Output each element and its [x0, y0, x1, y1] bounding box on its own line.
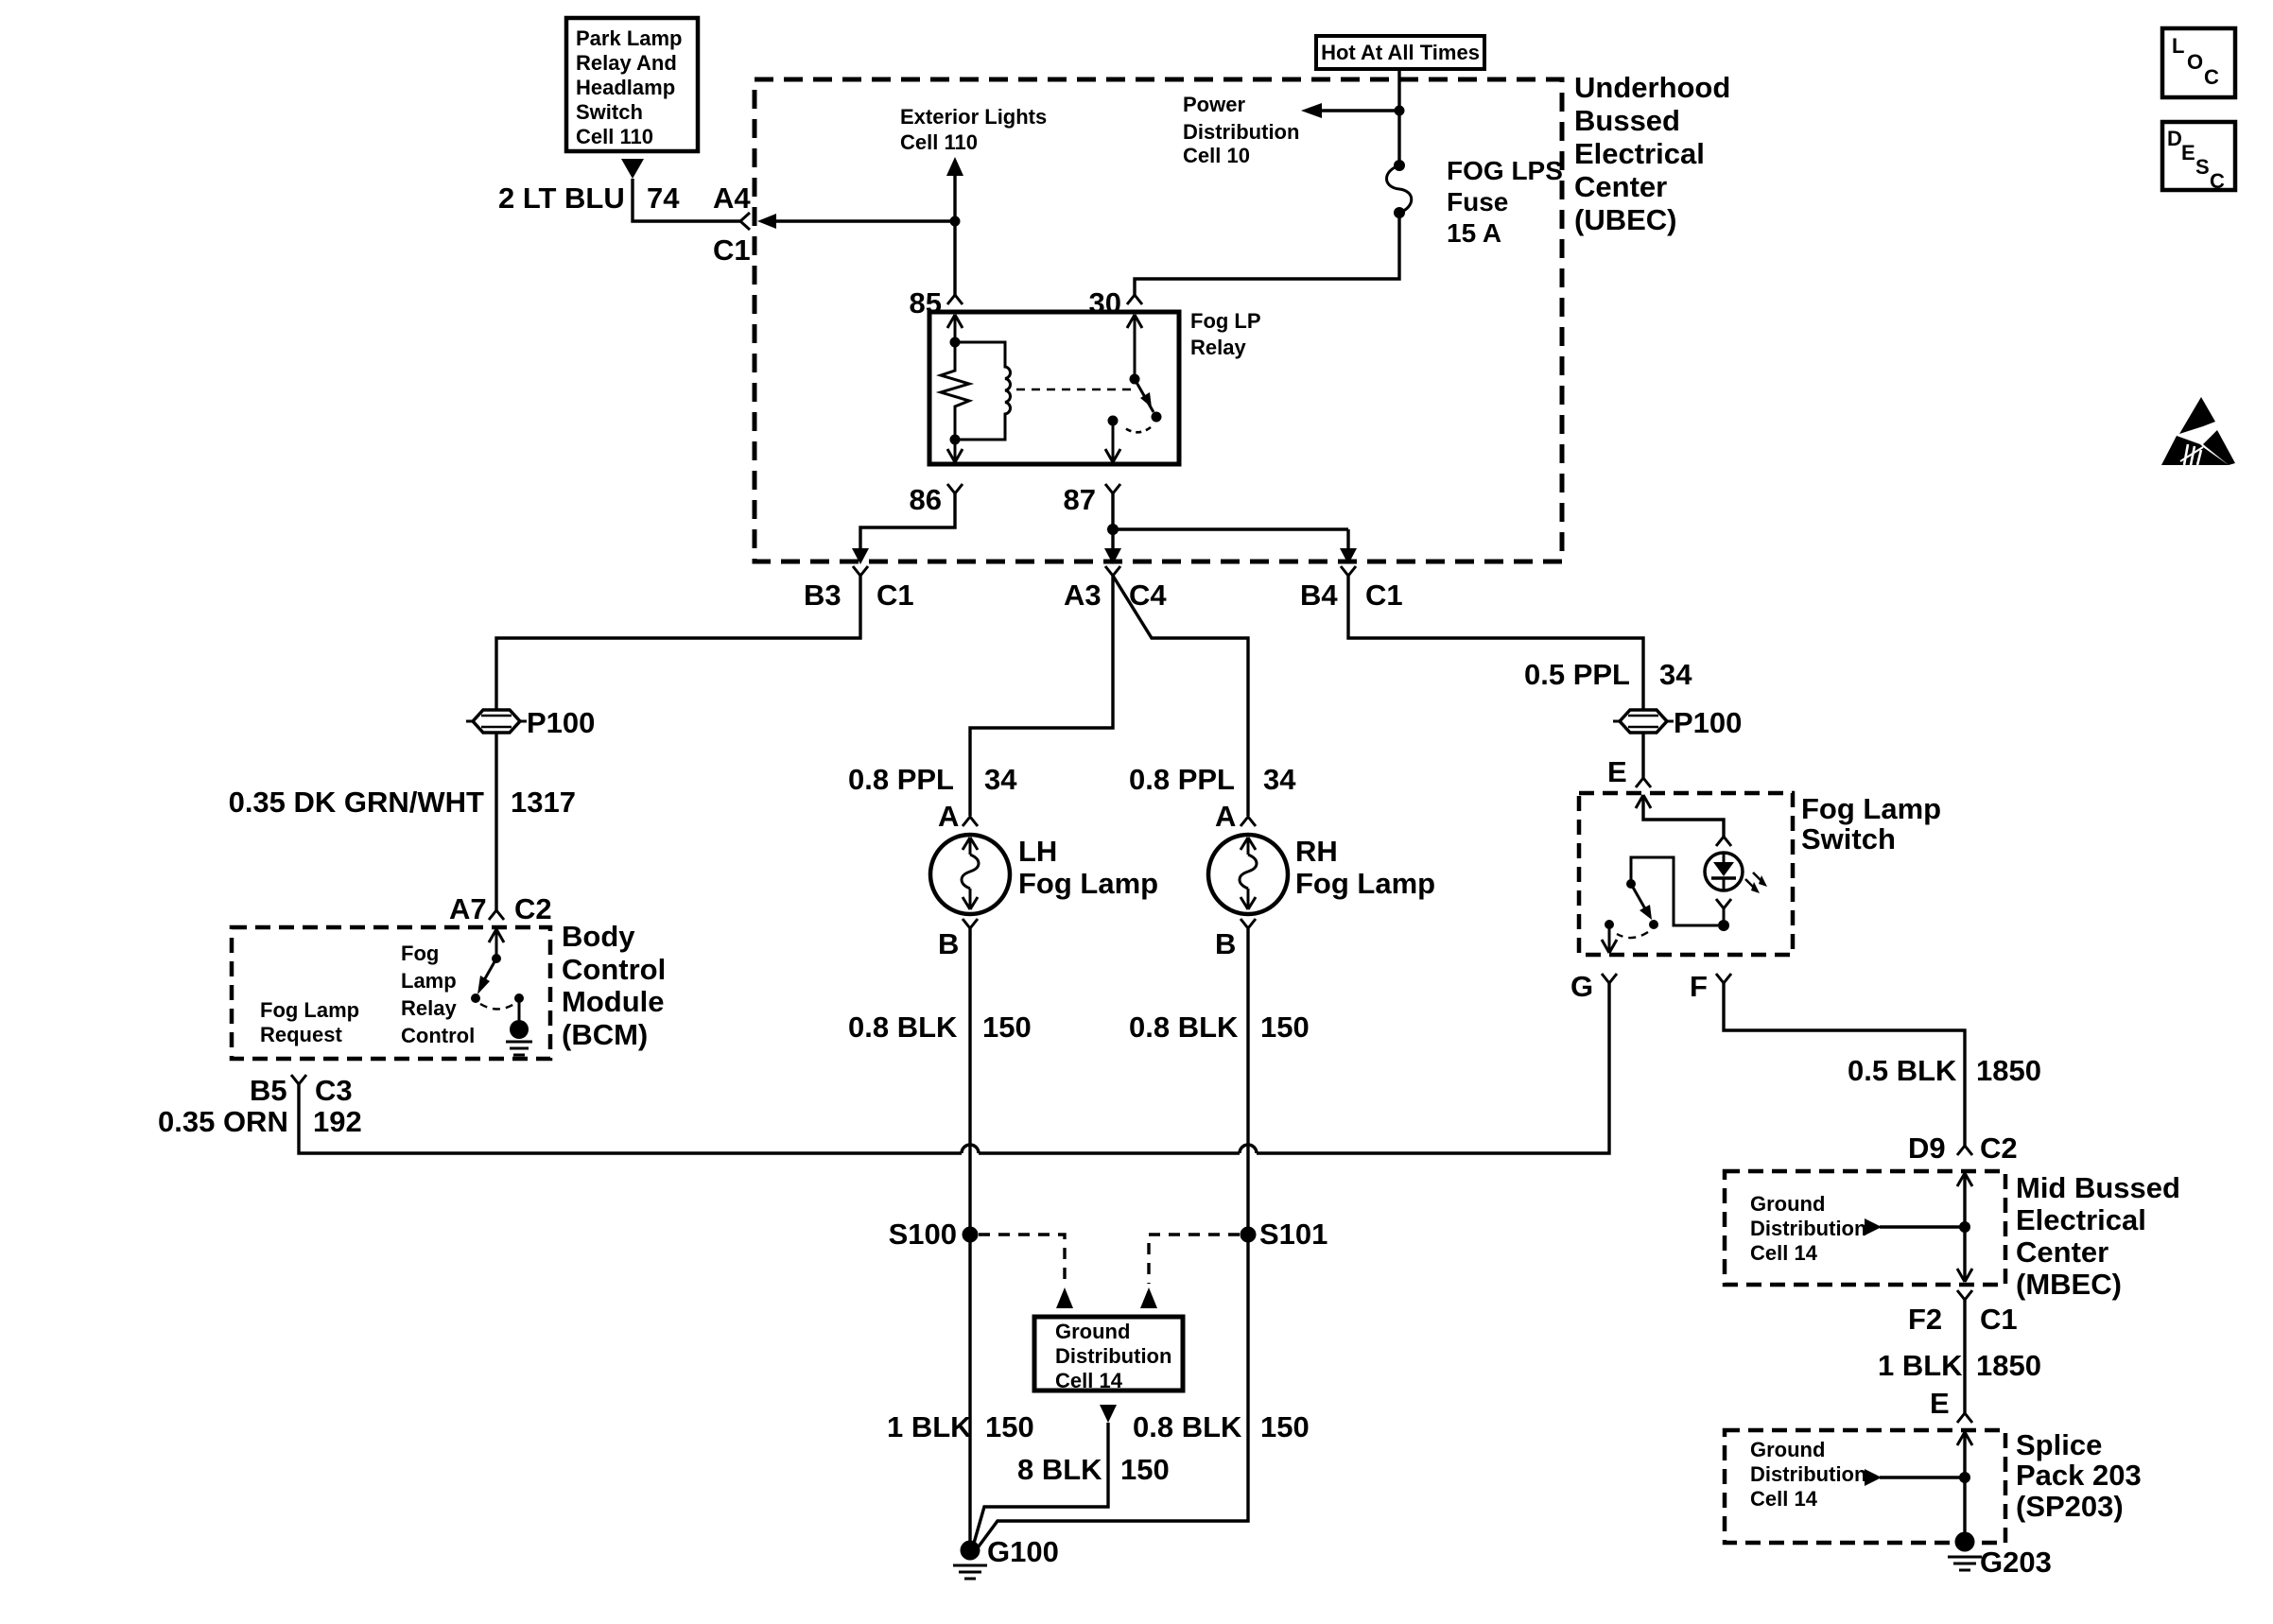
wire A3 to LH fog lamp — [970, 576, 1113, 816]
connector A of LH lamp — [938, 800, 978, 833]
MBEC internal wire with arrows — [1957, 1173, 1972, 1282]
svg-text:1850: 1850 — [1976, 1054, 2041, 1087]
svg-text:(SP203): (SP203) — [2016, 1490, 2124, 1523]
svg-text:0.5 BLK: 0.5 BLK — [1848, 1054, 1957, 1087]
svg-text:A3: A3 — [1064, 579, 1102, 612]
wire C4 to RH fog lamp — [1113, 576, 1248, 816]
wire to B4 — [1340, 529, 1357, 564]
svg-text:LH: LH — [1018, 835, 1057, 868]
connector B of LH lamp — [938, 919, 978, 960]
svg-text:Control: Control — [562, 953, 666, 986]
svg-text:A4: A4 — [713, 181, 751, 215]
connector A7 C2 — [449, 892, 552, 925]
wire pin 86 to B3 — [852, 493, 955, 564]
wire 8 BLK to G100 — [973, 1423, 1108, 1546]
svg-text:B5: B5 — [250, 1074, 287, 1107]
svg-text:Module: Module — [562, 985, 665, 1018]
label 1 BLK 150 — [887, 1410, 1034, 1443]
wire B of RH lamp down to S101 — [1246, 928, 1249, 1235]
svg-text:F2: F2 — [1908, 1303, 1942, 1336]
svg-text:Center: Center — [1574, 170, 1667, 203]
svg-text:F: F — [1690, 970, 1708, 1003]
relay actuation dashed link — [1016, 389, 1132, 391]
svg-text:C1: C1 — [713, 233, 751, 267]
connector B5 C3 — [250, 1074, 353, 1107]
connector A3 C4 — [1064, 566, 1167, 612]
connector below LED — [1716, 899, 1731, 931]
wire hop at RH lamp — [1240, 1145, 1257, 1153]
switch dashed arc — [1617, 932, 1648, 938]
svg-text:Splice: Splice — [2016, 1428, 2102, 1461]
svg-text:E: E — [2181, 141, 2195, 164]
connector B4 C1 — [1300, 566, 1403, 612]
svg-text:C: C — [2204, 65, 2219, 89]
svg-text:Cell 14: Cell 14 — [1750, 1241, 1818, 1265]
box: Park Lamp Relay And Headlamp Switch Cell 110 — [566, 18, 698, 151]
connector pin 30 — [1089, 286, 1142, 320]
label Underhood Bussed Electrical Center (UBEC) — [1574, 71, 1730, 236]
MBEC ground distribution tap — [1865, 1218, 1970, 1235]
label 0.35 ORN 192 — [158, 1105, 362, 1138]
svg-text:Hot At All Times: Hot At All Times — [1321, 41, 1480, 64]
BCM switch blade — [471, 959, 496, 1003]
svg-text:Fog LP: Fog LP — [1190, 309, 1261, 333]
BCM switch dashed arc — [480, 1004, 514, 1010]
svg-text:E: E — [1607, 755, 1627, 788]
svg-text:0.35 ORN: 0.35 ORN — [158, 1105, 288, 1138]
svg-text:74: 74 — [647, 181, 680, 215]
LED emission arrows — [1745, 872, 1767, 893]
svg-text:0.8 BLK: 0.8 BLK — [848, 1011, 958, 1044]
svg-text:Control: Control — [401, 1024, 475, 1047]
svg-text:Ground: Ground — [1750, 1192, 1825, 1216]
SP203 internal wire with arrow — [1957, 1432, 1972, 1536]
svg-text:1850: 1850 — [1976, 1349, 2041, 1382]
svg-text:0.5 PPL: 0.5 PPL — [1524, 658, 1630, 691]
svg-text:Cell 110: Cell 110 — [900, 130, 978, 154]
label 1 BLK 1850 — [1878, 1349, 2041, 1382]
connector B3 C1 — [804, 566, 914, 612]
label 0.35 DK GRN/WHT 1317 — [229, 786, 576, 819]
svg-text:Relay And: Relay And — [576, 51, 677, 75]
svg-text:G203: G203 — [1980, 1546, 2052, 1579]
svg-text:C1: C1 — [1980, 1303, 2018, 1336]
svg-text:C1: C1 — [876, 579, 914, 612]
RH fog lamp — [1208, 835, 1435, 914]
svg-text:Electrical: Electrical — [2016, 1203, 2146, 1236]
svg-text:Fog: Fog — [401, 942, 439, 965]
wire S101 to G100 — [976, 1235, 1248, 1550]
svg-text:Park Lamp: Park Lamp — [576, 26, 683, 50]
label 0.8 BLK 150 left — [848, 1011, 1032, 1044]
label Body Control Module (BCM) — [562, 920, 666, 1051]
arrow to Power Distribution Cell 10 — [1301, 103, 1399, 118]
svg-text:0.8 BLK: 0.8 BLK — [1129, 1011, 1239, 1044]
svg-text:Relay: Relay — [401, 996, 457, 1020]
label 0.8 BLK 150 bottom — [1133, 1410, 1310, 1443]
connector E of fog lamp switch — [1607, 755, 1651, 788]
svg-text:A: A — [938, 800, 959, 833]
svg-text:D9: D9 — [1908, 1132, 1946, 1165]
svg-text:15 A: 15 A — [1447, 218, 1501, 248]
LOC reference box — [2162, 28, 2235, 97]
LH fog lamp — [930, 835, 1158, 914]
label Power Distribution Cell 10 — [1183, 93, 1299, 167]
relay box Fog LP Relay — [929, 309, 1261, 464]
svg-text:B3: B3 — [804, 579, 842, 612]
relay pin 85 internal arrow — [947, 315, 963, 348]
wire from Hot At All Times to fuse — [1395, 69, 1405, 161]
svg-text:O: O — [2187, 50, 2203, 74]
svg-text:P100: P100 — [1674, 706, 1742, 739]
svg-text:Distribution: Distribution — [1750, 1217, 1866, 1240]
connector E of splice pack — [1930, 1387, 1972, 1423]
svg-text:Ground: Ground — [1055, 1320, 1130, 1343]
svg-text:34: 34 — [984, 763, 1017, 796]
switch contact wiring — [1626, 857, 1718, 925]
svg-text:RH: RH — [1295, 835, 1338, 868]
connector B of RH lamp — [1215, 919, 1256, 960]
relay pin 30 internal arrow and contact — [1127, 315, 1142, 385]
box: Ground Distribution Cell 14 (center) — [1034, 1317, 1183, 1392]
svg-text:Distribution: Distribution — [1183, 120, 1299, 144]
svg-text:L: L — [2172, 34, 2184, 58]
svg-text:87: 87 — [1064, 483, 1096, 516]
wire 2 LT BLU 74 from park lamp box to A4 — [633, 179, 741, 221]
svg-text:S100: S100 — [889, 1218, 957, 1251]
wire P100 to A7 — [495, 733, 497, 911]
wire to A3 — [1104, 529, 1121, 564]
label Fog Lamp Switch — [1801, 792, 1941, 855]
svg-text:S: S — [2195, 155, 2210, 179]
svg-text:A7: A7 — [449, 892, 487, 925]
svg-text:Request: Request — [260, 1023, 342, 1046]
connector P100 right — [1613, 706, 1742, 739]
svg-text:1317: 1317 — [511, 786, 576, 819]
relay coil resistor — [941, 342, 969, 440]
svg-text:150: 150 — [1260, 1410, 1310, 1443]
LED indicator — [1705, 853, 1743, 890]
MBEC dashed box — [1725, 1171, 2005, 1285]
svg-text:B4: B4 — [1300, 579, 1338, 612]
ESD sensitivity symbol — [2161, 397, 2235, 465]
label 0.8 BLK 150 right — [1129, 1011, 1310, 1044]
svg-text:Lamp: Lamp — [401, 969, 457, 993]
relay coil winding — [955, 342, 1011, 440]
svg-text:FOG LPS: FOG LPS — [1447, 156, 1563, 185]
svg-text:Cell 14: Cell 14 — [1750, 1487, 1818, 1511]
svg-text:A: A — [1215, 800, 1236, 833]
wire B4 to right P100 — [1348, 576, 1643, 709]
svg-text:30: 30 — [1089, 286, 1121, 320]
svg-text:(BCM): (BCM) — [562, 1018, 648, 1051]
BCM internal arrow at A7 — [489, 929, 504, 963]
svg-text:Distribution: Distribution — [1055, 1344, 1171, 1368]
svg-text:0.8 BLK: 0.8 BLK — [1133, 1410, 1242, 1443]
svg-text:E: E — [1930, 1387, 1950, 1420]
wire S100 to G100 — [968, 1235, 971, 1543]
wire arrow into A4 inside UBEC — [757, 214, 955, 229]
label Mid Bussed Electrical Center (MBEC) — [2016, 1171, 2180, 1301]
UBEC dashed box — [755, 79, 1562, 561]
splice S101 — [1241, 1218, 1328, 1251]
wire F to D9 — [1724, 983, 1965, 1147]
svg-text:8 BLK: 8 BLK — [1017, 1453, 1102, 1486]
wire B of LH lamp down to S100 — [968, 928, 971, 1235]
label 8 BLK 150 — [1017, 1453, 1170, 1486]
wire F2 to E of splice pack — [1963, 1300, 1966, 1414]
arrow from ground distribution box — [1100, 1405, 1117, 1423]
svg-text:0.8 PPL: 0.8 PPL — [848, 763, 954, 796]
ground G203 — [1948, 1532, 2052, 1580]
wire 0.35 ORN from B5 to fog lamp switch G with hops — [299, 983, 1609, 1153]
relay switch dashed arc — [1125, 427, 1151, 432]
wire fuse to relay pin 30 — [1135, 216, 1399, 295]
svg-text:G: G — [1570, 970, 1593, 1003]
label 0.5 PPL 34 — [1524, 658, 1692, 691]
svg-text:2 LT BLU: 2 LT BLU — [498, 181, 625, 215]
svg-text:C2: C2 — [1980, 1132, 2018, 1165]
svg-text:0.8 PPL: 0.8 PPL — [1129, 763, 1235, 796]
svg-text:(UBEC): (UBEC) — [1574, 203, 1677, 236]
svg-text:Distribution: Distribution — [1750, 1462, 1866, 1486]
label 2 LT BLU 74 — [498, 181, 680, 215]
label Ground Distribution Cell 14 (SP203) — [1750, 1438, 1866, 1511]
wire B3 to P100 — [496, 576, 860, 709]
svg-text:Switch: Switch — [1801, 822, 1896, 855]
dashed reference from S101 to ground distribution — [1140, 1235, 1240, 1308]
svg-text:Cell 110: Cell 110 — [576, 125, 653, 148]
svg-text:150: 150 — [1120, 1453, 1170, 1486]
svg-text:Exterior Lights: Exterior Lights — [900, 105, 1047, 129]
svg-text:C3: C3 — [315, 1074, 353, 1107]
svg-text:Power: Power — [1183, 93, 1245, 116]
splice S100 — [889, 1218, 979, 1251]
connector pin 87 — [1064, 483, 1120, 516]
svg-text:Bussed: Bussed — [1574, 104, 1680, 137]
connector P100 left — [466, 706, 595, 739]
BCM switch ground contact — [506, 993, 532, 1055]
wire P100 to E — [1641, 733, 1644, 779]
svg-text:150: 150 — [985, 1410, 1034, 1443]
svg-text:Fog Lamp: Fog Lamp — [1018, 867, 1158, 900]
svg-text:Fog Lamp: Fog Lamp — [1295, 867, 1435, 900]
relay pin 87 contact — [1105, 416, 1120, 463]
svg-text:B: B — [1215, 927, 1236, 960]
svg-text:Fog Lamp: Fog Lamp — [260, 998, 359, 1022]
BCM dashed box — [232, 927, 550, 1059]
svg-text:Body: Body — [562, 920, 635, 953]
svg-text:0.35 DK GRN/WHT: 0.35 DK GRN/WHT — [229, 786, 484, 819]
relay coil bottom node — [947, 435, 963, 463]
wire hop at LH lamp — [962, 1145, 979, 1153]
svg-text:Mid Bussed: Mid Bussed — [2016, 1171, 2180, 1204]
svg-text:86: 86 — [910, 483, 942, 516]
connector pin 86 — [910, 483, 963, 516]
svg-text:C1: C1 — [1365, 579, 1403, 612]
svg-text:Cell 14: Cell 14 — [1055, 1369, 1123, 1392]
DESC reference box — [2162, 122, 2235, 193]
wire pin 87 junction — [1107, 493, 1348, 535]
label 0.8 PPL 34 left — [848, 763, 1017, 796]
connector A of RH lamp — [1215, 800, 1256, 833]
svg-text:P100: P100 — [527, 706, 595, 739]
svg-text:C4: C4 — [1129, 579, 1167, 612]
svg-text:S101: S101 — [1259, 1218, 1327, 1251]
relay switch blade — [1135, 379, 1162, 423]
SP203 dashed box — [1725, 1430, 2005, 1543]
svg-text:G100: G100 — [987, 1535, 1059, 1568]
label 0.5 BLK 1850 — [1848, 1054, 2041, 1087]
connector pin 85 — [910, 286, 963, 320]
svg-text:B: B — [938, 927, 959, 960]
svg-text:34: 34 — [1659, 658, 1692, 691]
svg-text:C: C — [2210, 169, 2225, 193]
svg-text:Fog Lamp: Fog Lamp — [1801, 792, 1941, 825]
connector F — [1690, 970, 1731, 1003]
connector G — [1570, 970, 1617, 1003]
connector A4 C1 — [713, 181, 751, 267]
switch G contact with arrow — [1602, 920, 1617, 953]
svg-text:Fuse: Fuse — [1447, 187, 1508, 216]
svg-text:Cell 10: Cell 10 — [1183, 144, 1250, 167]
connector D9 C2 — [1908, 1132, 2018, 1165]
svg-text:Pack 203: Pack 203 — [2016, 1459, 2142, 1492]
node: Exterior Lights Cell 110 feed — [900, 105, 1047, 295]
arrow to Park Lamp box — [621, 159, 644, 179]
ground G100 — [953, 1535, 1059, 1579]
label Fog Lamp Request — [260, 998, 359, 1046]
svg-text:Headlamp: Headlamp — [576, 76, 675, 99]
svg-text:Relay: Relay — [1190, 336, 1246, 359]
svg-text:C2: C2 — [514, 892, 552, 925]
svg-text:D: D — [2167, 127, 2182, 150]
connector F2 C1 — [1908, 1290, 2018, 1336]
svg-text:Ground: Ground — [1750, 1438, 1825, 1461]
dashed reference from S100 to ground distribution — [979, 1235, 1073, 1308]
svg-text:150: 150 — [982, 1011, 1032, 1044]
fog lamp switch dashed box — [1579, 793, 1793, 955]
svg-text:1 BLK: 1 BLK — [887, 1410, 972, 1443]
switch blade — [1631, 884, 1658, 929]
svg-text:Underhood: Underhood — [1574, 71, 1730, 104]
label 0.8 PPL 34 right — [1129, 763, 1296, 796]
switch internal feed wire — [1636, 795, 1731, 846]
svg-text:192: 192 — [313, 1105, 362, 1138]
svg-text:34: 34 — [1263, 763, 1296, 796]
svg-text:85: 85 — [910, 286, 942, 320]
label Ground Distribution Cell 14 (MBEC) — [1750, 1192, 1866, 1265]
SP203 ground distribution tap — [1865, 1469, 1970, 1486]
label Splice Pack 203 (SP203) — [2016, 1428, 2142, 1523]
svg-text:150: 150 — [1260, 1011, 1310, 1044]
svg-text:1 BLK: 1 BLK — [1878, 1349, 1963, 1382]
svg-text:(MBEC): (MBEC) — [2016, 1268, 2122, 1301]
fuse FOG LPS 15 A — [1387, 156, 1563, 248]
svg-text:Switch: Switch — [576, 100, 643, 124]
label Fog Lamp Relay Control — [401, 942, 475, 1047]
svg-text:Electrical: Electrical — [1574, 137, 1705, 170]
svg-text:Center: Center — [2016, 1235, 2108, 1269]
box: Hot At All Times — [1316, 36, 1484, 69]
